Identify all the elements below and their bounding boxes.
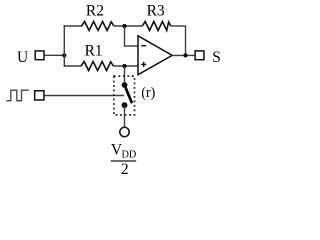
node B junction dot (plus input / switch) [122,64,126,68]
wire right column (feedback) [185,25,187,55]
svg-text:R1: R1 [85,42,103,59]
fraction bar [111,160,136,162]
op-amp plus pin mark [141,63,146,65]
terminal pulse input [35,91,44,100]
resistor R1 [81,62,113,71]
source open circle [120,127,129,136]
wire left column [63,25,65,66]
wire node A down to minus input [124,26,126,47]
resistor R3 [142,22,171,31]
svg-text:U: U [17,49,28,66]
svg-text:(r): (r) [141,85,155,101]
svg-text:R3: R3 [147,3,165,20]
svg-text:R2: R2 [86,3,104,20]
op-amp minus pin mark [141,45,146,47]
terminal S [195,51,204,60]
wire switch to source circle [124,105,126,127]
op-amp U1 triangle [138,36,172,75]
terminal U [35,51,44,60]
resistor R2 [82,22,114,31]
wire top row left lead [64,25,82,27]
switch top contact [122,82,128,88]
node A junction dot (feedback/minus) [122,24,126,28]
wire plus node down to switch [124,66,126,85]
wire U to node [45,54,65,56]
svg-text:2: 2 [121,161,129,178]
switch bottom contact [122,102,128,108]
wire pulse to switch [45,95,124,97]
wire output row [172,54,195,56]
pulse source glyph [7,90,29,101]
wire R1 to plus input [113,65,138,67]
node U junction dot [62,53,66,57]
switch lever [125,85,133,103]
wire R2 to node A [114,25,142,27]
node output junction dot [183,53,187,57]
wire minus input [124,45,139,47]
svg-text:DD: DD [122,149,137,160]
svg-text:S: S [212,49,221,66]
wire R3 to right column [171,25,186,27]
switch dashed enclosure [114,76,135,115]
wire R1 left lead [64,65,81,67]
